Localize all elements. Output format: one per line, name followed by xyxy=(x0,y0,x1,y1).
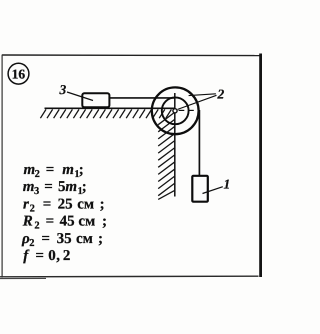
floor surface line xyxy=(45,107,176,109)
svg-text:3: 3 xyxy=(59,82,67,97)
svg-text:2: 2 xyxy=(35,169,40,180)
svg-text:45: 45 xyxy=(60,214,75,230)
equation line r2 = 25 cm xyxy=(23,196,105,214)
svg-text:m: m xyxy=(62,162,74,178)
svg-text:;: ; xyxy=(82,179,87,195)
svg-text:2: 2 xyxy=(34,221,39,232)
svg-text:m: m xyxy=(23,179,35,195)
frame left border xyxy=(1,55,3,278)
svg-text:=: = xyxy=(35,248,44,264)
svg-text:16: 16 xyxy=(12,66,26,81)
svg-text:25: 25 xyxy=(58,196,73,212)
equation line m3 = 5m1 xyxy=(23,179,87,197)
axle dash marks xyxy=(179,109,185,111)
svg-text:35: 35 xyxy=(57,231,72,247)
equation line m2 = m1 xyxy=(24,162,84,180)
equation line R2 = 45 cm xyxy=(22,214,107,232)
frame bottom border doubled left segment xyxy=(0,277,46,279)
leader line 2 to hub xyxy=(178,95,217,109)
pulley 2 inner circle xyxy=(162,97,189,124)
pulley axle hub xyxy=(173,109,177,113)
floor hatching xyxy=(40,109,171,118)
equation line rho2 = 35 cm xyxy=(21,231,103,249)
svg-text:;: ; xyxy=(102,214,107,230)
block 3 xyxy=(82,93,109,107)
svg-text:5: 5 xyxy=(58,179,66,195)
svg-text:R: R xyxy=(22,214,33,230)
svg-text:m: m xyxy=(65,179,77,195)
svg-text:m: m xyxy=(24,162,36,178)
svg-text:2: 2 xyxy=(29,238,34,249)
svg-text:,: , xyxy=(56,248,60,264)
svg-text:=: = xyxy=(43,196,52,212)
svg-text:3: 3 xyxy=(34,186,39,197)
svg-text:см: см xyxy=(77,196,94,212)
svg-text:2: 2 xyxy=(63,248,71,264)
rope from block 3 to pulley xyxy=(110,97,175,99)
wall hatching xyxy=(158,113,174,200)
wall surface line xyxy=(174,93,176,197)
svg-text:;: ; xyxy=(98,231,103,247)
leader line 3 xyxy=(67,92,93,101)
svg-text:0: 0 xyxy=(48,248,56,264)
rope from pulley to block 1 xyxy=(198,110,200,176)
frame right border xyxy=(259,54,262,278)
block 1 xyxy=(192,176,208,202)
svg-text:см: см xyxy=(76,231,93,247)
svg-text:=: = xyxy=(44,179,53,195)
equation line f = 0,2 xyxy=(23,248,70,264)
svg-text:;: ; xyxy=(79,162,84,178)
problem number circle 16 xyxy=(8,63,29,84)
svg-text:см: см xyxy=(78,214,95,230)
svg-text:2: 2 xyxy=(217,87,225,102)
svg-text:1: 1 xyxy=(224,176,231,191)
leader line 2 to outer rim xyxy=(189,94,216,96)
svg-text:=: = xyxy=(46,214,55,230)
frame bottom border xyxy=(0,275,259,278)
leader line 1 xyxy=(203,187,223,194)
svg-text:=: = xyxy=(41,231,50,247)
svg-text:=: = xyxy=(46,162,55,178)
pulley 2 outer circle xyxy=(152,87,199,134)
frame top border xyxy=(2,54,260,57)
svg-text:r: r xyxy=(23,196,29,212)
svg-text:;: ; xyxy=(100,196,105,212)
